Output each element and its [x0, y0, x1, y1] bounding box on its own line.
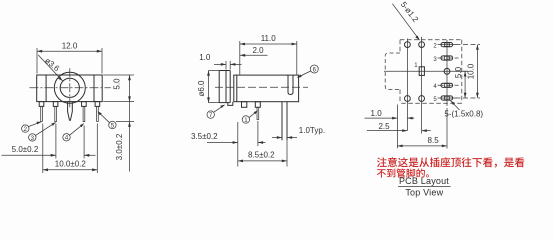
dim 5.0 (pad pitch right) [454, 66, 480, 98]
front view horizontal centerline [30, 87, 111, 89]
slot pad 5 [433, 96, 456, 103]
callout 7 [207, 105, 225, 119]
svg-text:3.5±0.2: 3.5±0.2 [191, 132, 218, 141]
svg-text:12.0: 12.0 [62, 42, 78, 51]
pin 2 (front view leftmost) [39, 102, 44, 122]
dim 1.0 (flange thickness) [199, 53, 241, 69]
dim 1.0 Typ. (pin width) [272, 126, 325, 139]
pcb outline dashed barrel protrusion [385, 53, 400, 90]
svg-text:11.0: 11.0 [261, 34, 277, 43]
pin 4 (front view) [82, 102, 87, 122]
side view centerline [215, 86, 308, 88]
callout 2 [22, 122, 42, 133]
pcb pad column centerline (right column) [446, 40, 448, 149]
side view switch slot [288, 75, 293, 94]
hole ø1.2 top-left [405, 42, 411, 48]
svg-text:2.5: 2.5 [378, 122, 390, 131]
side view rear long pin [282, 102, 287, 141]
side view pin 1 stub and lead [255, 102, 260, 120]
side view body outline [234, 75, 299, 102]
pin 3 (front view) [53, 102, 58, 122]
hole ø1.2 bottom-second [419, 96, 425, 102]
callout 5 [98, 112, 116, 130]
red note text line 1 and line 2 (vector outlines) [377, 157, 524, 167]
dim 2.0 [240, 46, 268, 57]
side view front foot [228, 102, 233, 106]
slot pad 4 [433, 83, 458, 90]
svg-text:1.0: 1.0 [371, 109, 383, 118]
label ø3.6 with leader [38, 55, 62, 81]
svg-text:3.0±0.2: 3.0±0.2 [115, 133, 124, 160]
dim 8.5 (bottom) [397, 136, 447, 147]
svg-text:5-(1.5x0.8): 5-(1.5x0.8) [444, 109, 483, 118]
svg-text:5.0: 5.0 [454, 66, 463, 78]
svg-text:10.0: 10.0 [467, 63, 476, 79]
svg-text:1.0Typ.: 1.0Typ. [299, 126, 325, 135]
front view barrel outer circle [54, 72, 85, 103]
front view vertical centerline [69, 68, 71, 108]
callout 6 [297, 65, 318, 78]
svg-text:10.0±0.2: 10.0±0.2 [55, 160, 87, 169]
hole ø1.2 top-second [419, 42, 425, 48]
callout 3 [29, 122, 56, 141]
dim 3.0±0.2 (pin length, right side) [115, 102, 134, 172]
pin 5 (front view rightmost) [95, 102, 100, 122]
center pin (front view, tapered tip) [68, 102, 73, 121]
slot pad 3 [433, 56, 458, 63]
dim 1.0 (bottom left) [365, 105, 415, 149]
callout 1 [242, 111, 258, 124]
svg-text:ø6.0: ø6.0 [197, 80, 206, 97]
hole ø1.2 bottom-left [405, 96, 411, 102]
label 5-(1.5x0.8) with leader [444, 101, 483, 119]
svg-text:2.0: 2.0 [252, 46, 264, 55]
dim 12.0 (body width) [37, 42, 102, 74]
dim 8.5±0.2 [238, 140, 287, 166]
slot pad 2 [433, 43, 456, 50]
side view pin 7 stub [242, 102, 247, 108]
dim 11.0 (body length) [240, 34, 297, 74]
svg-text:1.0: 1.0 [199, 53, 211, 62]
dim 10.0 (pad span right) [456, 45, 481, 98]
pcb horizontal centerline [384, 70, 468, 72]
dim 10.0±0.2 (outer pin pitch) [43, 124, 98, 174]
front view body outline [37, 75, 103, 102]
svg-text:PCB Layout: PCB Layout [399, 176, 449, 186]
svg-text:5.0±0.2: 5.0±0.2 [12, 145, 39, 154]
svg-text:5.0: 5.0 [112, 78, 121, 90]
dim 2.5 (bottom left) [367, 122, 431, 132]
hole ø1.2 middle-right [444, 68, 450, 74]
side view barrel tip and mounting flange [219, 71, 230, 103]
svg-text:8.5±0.2: 8.5±0.2 [248, 151, 275, 160]
dim 5.0±0.2 (pin pitch) [2, 124, 96, 159]
callout 4 [63, 124, 84, 142]
pcb column centerline (first column) [406, 39, 408, 131]
svg-text:Top View: Top View [405, 188, 443, 198]
dim 5.0 (body height, right side) [103, 75, 134, 102]
pcb outline dashed body [400, 40, 462, 103]
caption underline [398, 185, 451, 187]
label 5-ø1.2 with leader [392, 0, 420, 40]
pcb column centerline (second column) [421, 37, 423, 134]
svg-text:8.5: 8.5 [428, 136, 440, 145]
front view inner hole circle ø3.6 [60, 78, 79, 97]
pad 1 square with digit [414, 63, 424, 76]
dim ø6.0 (barrel diameter) [197, 71, 219, 103]
dim 3.5±0.2 [191, 121, 266, 167]
